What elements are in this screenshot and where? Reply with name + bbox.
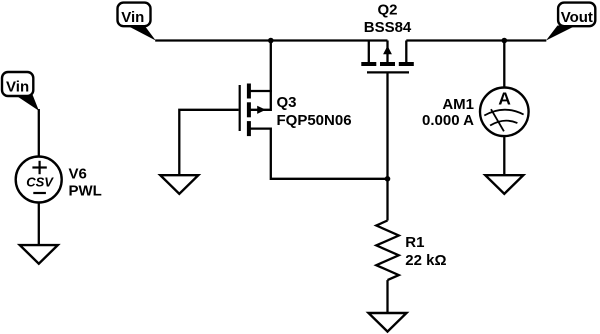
wire Q3 source down and across to node (249, 129, 388, 179)
ground (R1) (369, 313, 407, 332)
transistor Q3 (NMOS FQP50N06, vertical) (240, 84, 352, 137)
svg-text:PWL: PWL (69, 182, 102, 199)
wire R1 to ground (386, 280, 388, 313)
wire Q3 drain lead (rail down) (249, 41, 271, 92)
Q2 gate plate (367, 71, 409, 73)
Q3 channel bar bottom (247, 121, 251, 136)
svg-text:Vout: Vout (561, 9, 593, 26)
wire top rail left segment (Vin to Q2 source/body) (155, 39, 387, 41)
Q3 channel bar middle (247, 102, 251, 117)
ground (AM1) (485, 175, 523, 194)
Q2 channel bar left (361, 62, 376, 66)
ground (Q3 gate) (160, 175, 198, 194)
Q3 gate plate (239, 85, 241, 131)
ammeter AM1 (422, 88, 529, 137)
Q2 channel bar middle (380, 62, 395, 66)
node junction dot (Q3 source / Q2 gate / R1) (385, 176, 391, 182)
svg-text:FQP50N06: FQP50N06 (277, 112, 352, 129)
resistor R1 (376, 221, 446, 281)
wire Vin flag to V6 (38, 109, 40, 157)
wire Q2 gate lead down to node (386, 72, 388, 178)
Q2 channel bar right (399, 62, 414, 66)
AM1 needle (491, 109, 504, 131)
svg-text:V6: V6 (69, 166, 87, 183)
svg-text:Q2: Q2 (377, 1, 397, 18)
V6 plus sign (32, 166, 46, 168)
Q3 body connect (249, 90, 271, 110)
AM1 meter scale arc upper (484, 110, 523, 116)
V6 minus sign (33, 192, 46, 194)
node junction dot at AM1 tap (502, 38, 508, 44)
Q3 channel bar top (247, 84, 251, 99)
wire rail down to AM1 (503, 41, 505, 89)
svg-text:CSV: CSV (26, 175, 54, 190)
svg-text:Vin: Vin (6, 78, 29, 95)
svg-text:AM1: AM1 (442, 96, 474, 113)
wire V6 to ground (38, 203, 40, 246)
svg-text:Q3: Q3 (277, 94, 297, 111)
net flag Vout (top right) (546, 3, 595, 41)
svg-text:Vin: Vin (121, 9, 144, 26)
net flag Vin (left) (2, 72, 39, 111)
Q2 drain lead (405, 41, 407, 63)
ground (V6) (20, 245, 58, 264)
svg-text:A: A (498, 88, 511, 108)
wire Q3 gate to ground (179, 110, 238, 175)
Q3 body arrow (257, 106, 266, 114)
Q2 body arrow (383, 46, 392, 55)
svg-text:22 kΩ: 22 kΩ (405, 252, 446, 269)
voltage source V6 (CSV PWL) (16, 157, 102, 203)
AM1 meter scale arc lower (490, 121, 517, 126)
Q2 source lead (368, 41, 370, 63)
svg-text:BSS84: BSS84 (364, 19, 412, 36)
wire top rail right segment (Q2 drain to Vout) (406, 39, 546, 41)
wire AM1 to ground (503, 136, 505, 175)
svg-text:R1: R1 (405, 234, 424, 251)
node junction dot at Q3 drain tap (268, 38, 274, 44)
svg-text:0.000 A: 0.000 A (422, 112, 474, 129)
transistor Q2 (PMOS BSS84, horizontal) (361, 1, 414, 72)
Q2 body lead (386, 41, 388, 63)
wire node down to R1 (386, 179, 388, 221)
net flag Vin (top) (118, 3, 156, 41)
